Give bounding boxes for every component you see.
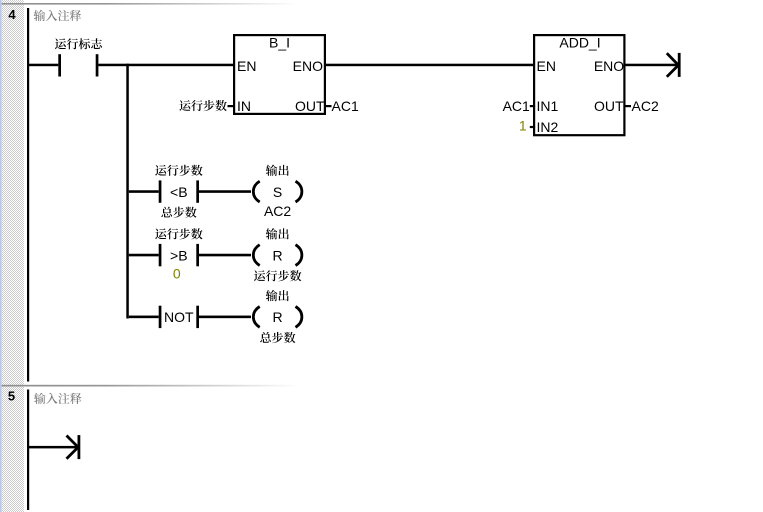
svg-text:EN: EN (237, 58, 256, 74)
coil branch2 parentheses (253, 245, 302, 266)
network 5 rung wire (29, 446, 78, 449)
wire contact to coil branch2 (199, 254, 251, 257)
network 4 separator line (2, 3, 302, 5)
network 5 left power rail (27, 390, 29, 511)
B_I IN operand 运行步数 (179, 100, 226, 111)
contact branch1 top operand 运行步数 (155, 165, 202, 176)
svg-text:ADD_I: ADD_I (559, 34, 600, 50)
svg-text:R: R (273, 247, 283, 263)
network 5 separator line (2, 385, 302, 387)
svg-text:<B: <B (170, 184, 188, 200)
contact branch3 right bar (196, 306, 199, 328)
ADD_I IN2 operand tick (530, 126, 535, 128)
network 4 open rung arrow (667, 53, 679, 77)
network number gutter (stippled) (2, 0, 24, 512)
wire ADD_I ENO to open arrow (624, 64, 678, 66)
svg-text:AC2: AC2 (264, 203, 291, 219)
coil branch3 top operand 输出 (266, 290, 289, 301)
svg-text:AC2: AC2 (632, 98, 659, 114)
wire branch to contact branch1 (129, 190, 159, 193)
ADD_I IN1 operand tick (530, 105, 535, 107)
svg-text:NOT: NOT (164, 309, 194, 325)
svg-text:0: 0 (173, 265, 181, 281)
contact branch3 left bar (159, 306, 162, 328)
box ADD_I (534, 35, 624, 135)
svg-text:AC1: AC1 (503, 98, 530, 114)
wire contact to B_I box (98, 64, 233, 66)
box B_I (234, 35, 325, 114)
coil branch1 parentheses (253, 181, 302, 202)
svg-text:IN2: IN2 (537, 119, 559, 135)
svg-text:S: S (273, 184, 282, 200)
network 4 left power rail (27, 8, 29, 382)
network 4 comment 输入注释 (34, 10, 81, 21)
network 5 comment 输入注释 (34, 393, 81, 404)
svg-text:1: 1 (519, 118, 527, 134)
svg-text:OUT: OUT (295, 98, 325, 114)
window edge strip (0, 0, 2, 512)
coil branch3 parentheses (253, 307, 302, 328)
wire contact to coil branch3 (199, 316, 251, 319)
contact 运行标志 right bar (96, 54, 99, 76)
coil branch2 top operand 输出 (266, 228, 289, 239)
svg-text:OUT: OUT (594, 98, 624, 114)
svg-text:R: R (273, 309, 283, 325)
coil branch1 top operand 输出 (266, 165, 289, 176)
contact 运行标志 left bar (58, 54, 61, 76)
B_I IN operand tick (228, 105, 234, 107)
contact branch2 right bar (196, 244, 199, 266)
svg-text:AC1: AC1 (332, 98, 359, 114)
svg-text:B_I: B_I (269, 34, 290, 50)
wire rail to contact (29, 64, 58, 66)
contact branch1 right bar (196, 180, 199, 202)
contact branch1 bottom operand 总步数 (161, 207, 196, 218)
svg-text:IN1: IN1 (537, 98, 559, 114)
coil branch2 bottom operand 运行步数 (254, 270, 301, 281)
svg-text:ENO: ENO (594, 58, 624, 74)
svg-text:EN: EN (537, 58, 556, 74)
wire contact to coil branch1 (199, 190, 251, 193)
svg-text:4: 4 (8, 7, 16, 22)
network 5 open rung arrow (67, 435, 79, 459)
B_I OUT operand tick (326, 105, 332, 107)
contact branch2 top operand 运行步数 (155, 228, 202, 239)
svg-text:>B: >B (170, 247, 188, 263)
wire branch to contact branch2 (129, 254, 159, 257)
coil branch3 bottom operand 总步数 (260, 332, 295, 343)
contact branch2 left bar (159, 244, 162, 266)
branch vertical line (126, 64, 129, 319)
contact branch1 left bar (159, 180, 162, 202)
svg-text:ENO: ENO (293, 58, 323, 74)
ADD_I OUT operand tick (624, 105, 631, 107)
svg-text:5: 5 (8, 389, 15, 404)
wire branch to contact branch3 (129, 316, 159, 319)
wire B_I ENO to ADD_I EN (326, 64, 533, 66)
contact label 运行标志 (55, 38, 102, 49)
svg-text:IN: IN (237, 98, 251, 114)
